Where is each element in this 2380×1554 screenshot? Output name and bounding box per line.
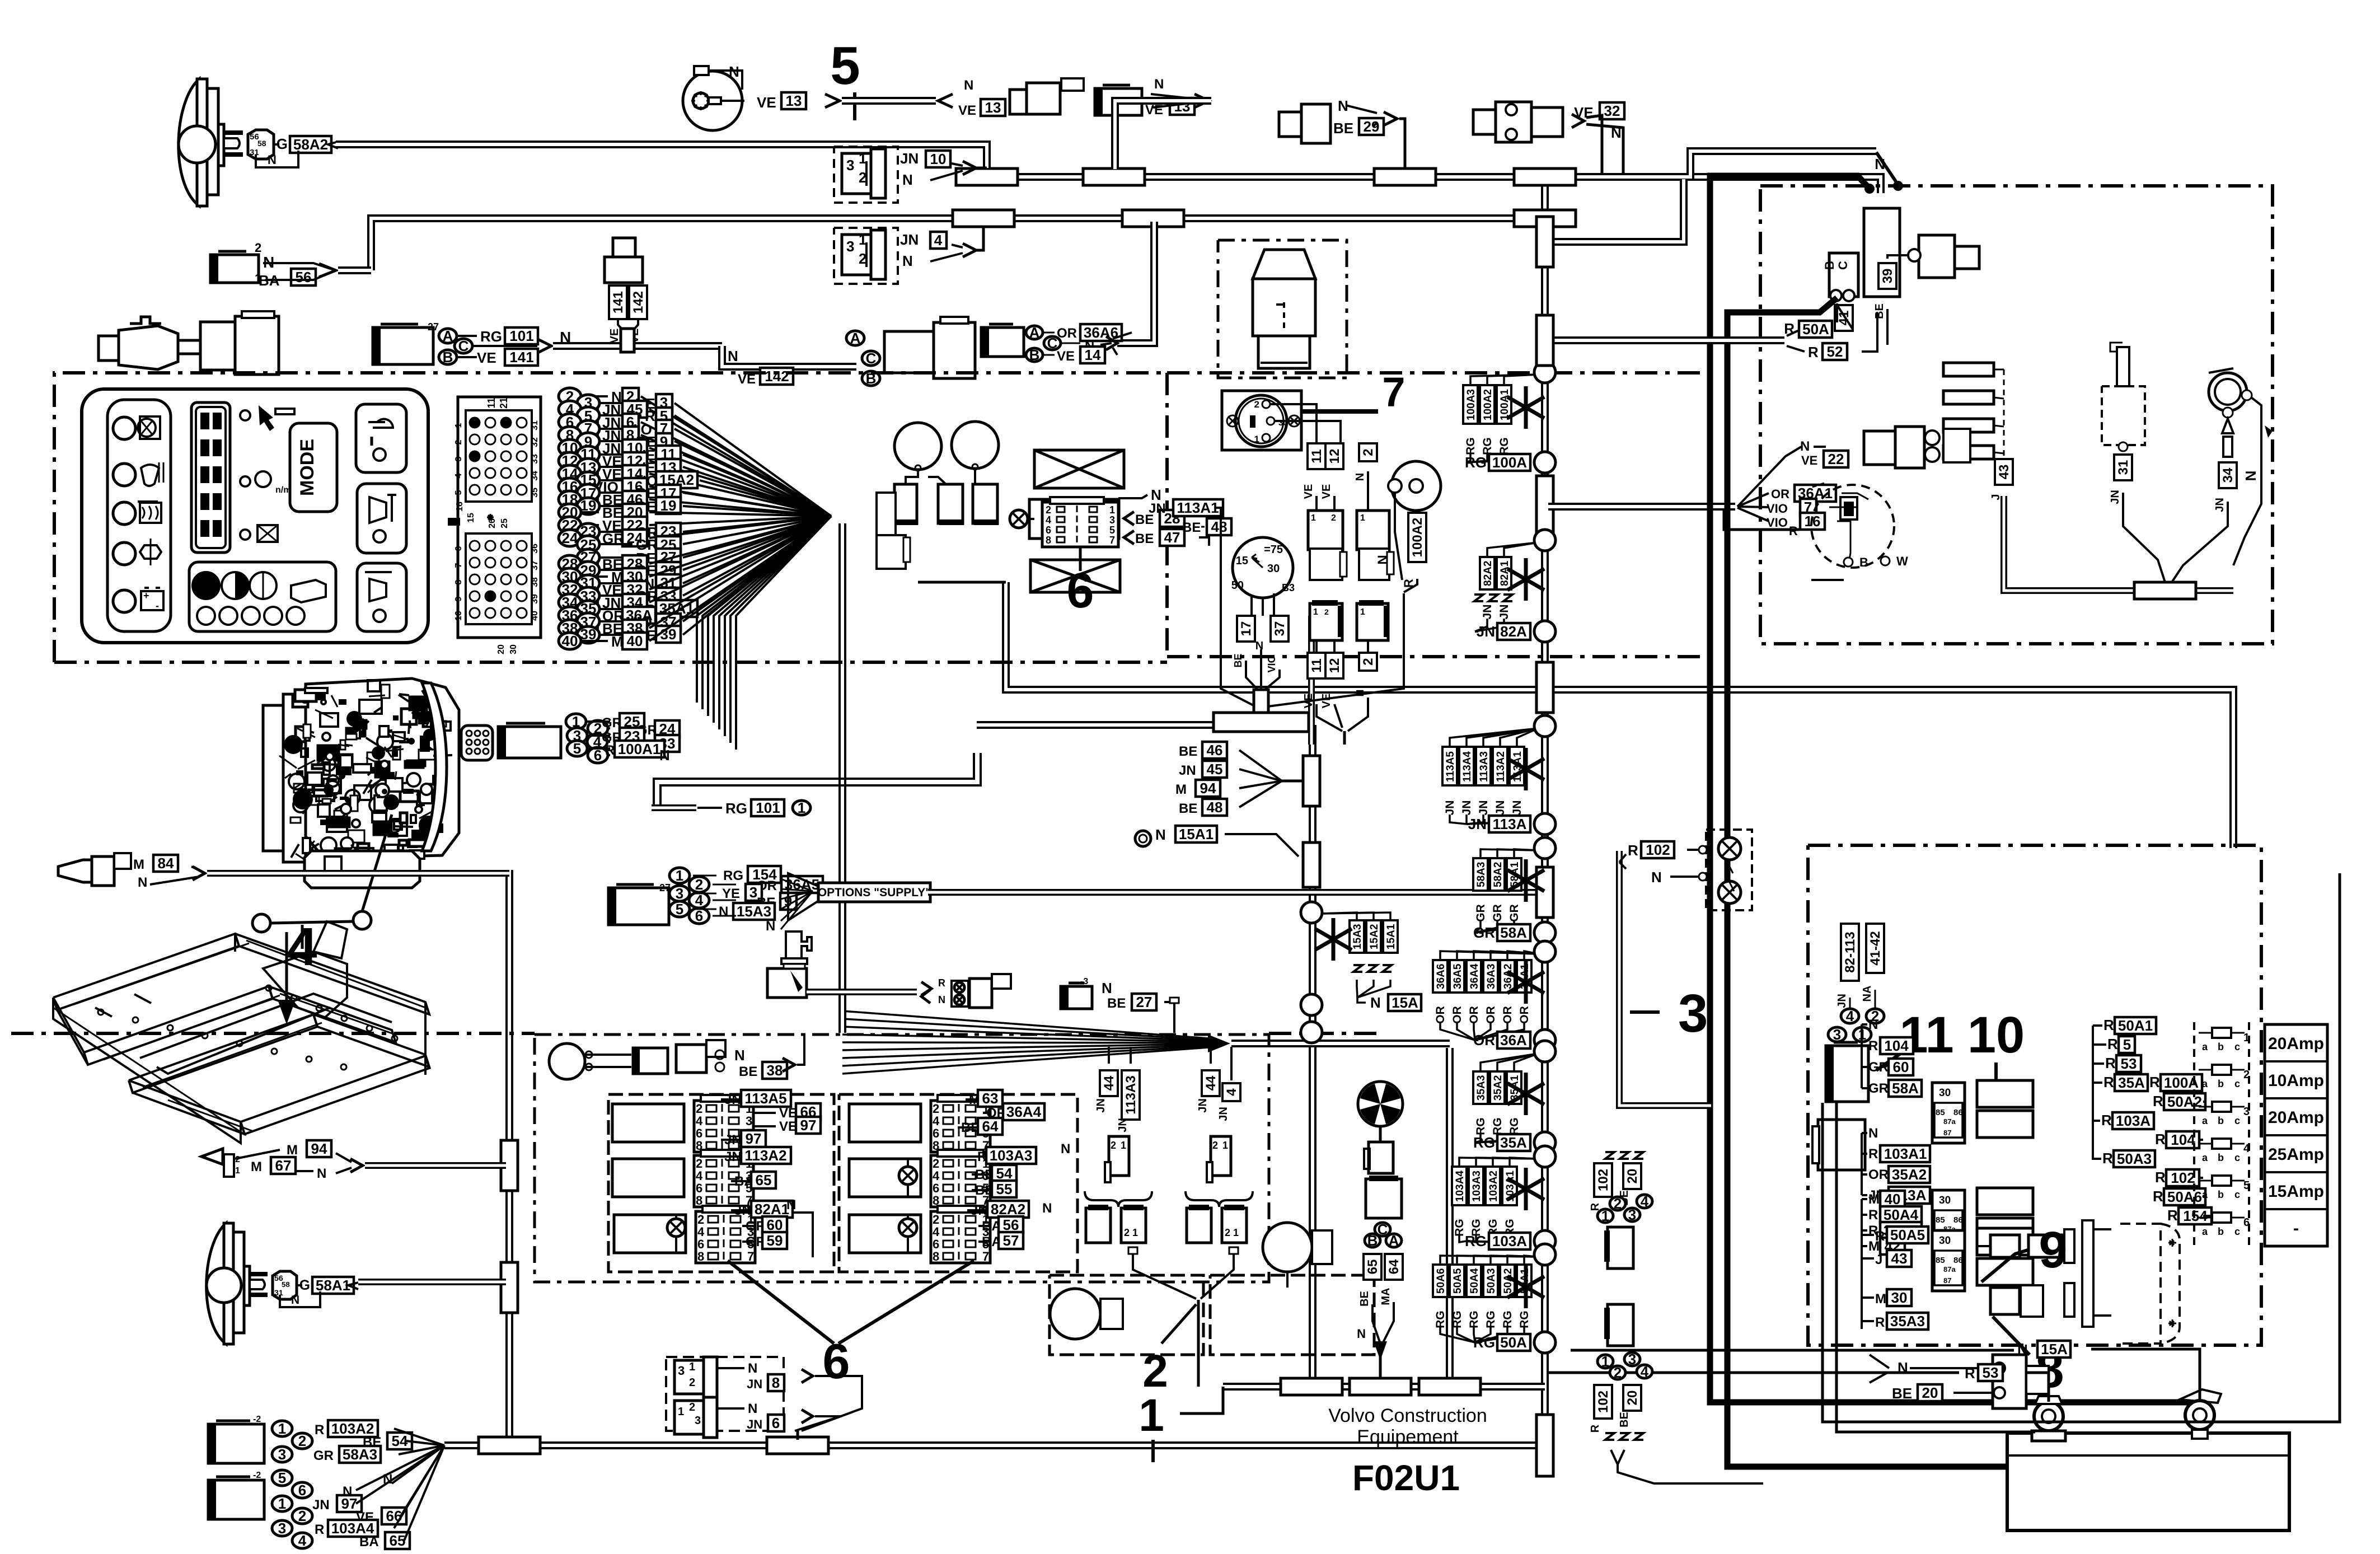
svg-text:35A: 35A: [1500, 1134, 1527, 1151]
svg-text:-3: -3: [1080, 977, 1088, 986]
svg-text:30: 30: [1939, 1087, 1951, 1099]
svg-text:W: W: [1896, 554, 1908, 568]
svg-text:C: C: [1047, 335, 1058, 352]
svg-text:N: N: [2017, 1341, 2028, 1358]
svg-text:3: 3: [678, 1364, 685, 1378]
svg-text:J: J: [1990, 494, 2002, 500]
svg-text:15: 15: [466, 513, 476, 523]
tag M41: [1835, 305, 1853, 331]
glow indicator: [2209, 373, 2247, 411]
connector body R102 upper: [1608, 1227, 1633, 1269]
svg-text:36A6: 36A6: [1435, 964, 1447, 989]
pin 31 wire JN 31: [577, 575, 599, 592]
svg-text:97: 97: [746, 1130, 762, 1147]
svg-text:8: 8: [1046, 535, 1051, 546]
svg-text:2: 2: [1046, 504, 1051, 516]
svg-text:4: 4: [1224, 1088, 1239, 1096]
connector BA56 sensor body: [210, 255, 259, 283]
connector pair B filled: [1310, 603, 1342, 640]
svg-text:30: 30: [509, 644, 518, 654]
svg-text:BE: BE: [1182, 520, 1201, 535]
svg-text:36A: 36A: [1500, 1032, 1527, 1049]
connector rounded grid: [461, 725, 493, 760]
svg-text:OPTIONS "SUPPLY": OPTIONS "SUPPLY": [818, 886, 931, 899]
wires JN plugs to H6: [802, 1376, 862, 1431]
clock icon: [240, 577, 250, 587]
mode icons column: [240, 410, 250, 420]
svg-text:87a: 87a: [1943, 1117, 1956, 1126]
svg-text:52: 52: [1827, 343, 1843, 360]
stack wire bottom: [1467, 815, 1500, 824]
stack tag: [1507, 1071, 1521, 1104]
fuse element: [2212, 1213, 2231, 1223]
svg-text:3: 3: [676, 885, 683, 902]
svg-text:-: -: [2293, 1219, 2299, 1238]
svg-text:2: 2: [454, 439, 463, 444]
svg-text:OR: OR: [1518, 1006, 1531, 1024]
sensor VE141 VE142 sender: [613, 238, 635, 257]
stack wire bottom: [1475, 920, 1514, 933]
connector RG101 module: [373, 327, 433, 364]
wire RG101 stub: [652, 804, 696, 811]
svg-text:a: a: [2202, 1189, 2208, 1200]
stack wire bottom: [1459, 1234, 1467, 1242]
svg-text:VE: VE: [1057, 349, 1075, 364]
pressure switch body: [767, 968, 807, 998]
svg-text:5: 5: [2123, 1036, 2131, 1053]
heavy cable 2 from alternator B: [1727, 298, 2049, 1467]
svg-text:1: 1: [1360, 607, 1365, 617]
svg-text:VE: VE: [757, 94, 776, 111]
svg-text:N: N: [786, 1197, 796, 1213]
svg-text:39: 39: [530, 594, 540, 604]
lamp plug octagon: [273, 1271, 297, 1299]
stack wire top: [1491, 1256, 1538, 1265]
svg-text:RG: RG: [1473, 1334, 1495, 1351]
svg-text:113A5: 113A5: [1445, 751, 1456, 782]
connector pair A: [1308, 511, 1343, 550]
connector key mark: [448, 518, 460, 526]
wire VE32 drops to H2: [1572, 114, 1584, 128]
lamp in line: [1010, 510, 1028, 528]
connector horn inline B: [1095, 88, 1142, 115]
svg-text:44: 44: [1102, 1075, 1117, 1090]
svg-text:113A: 113A: [1493, 816, 1527, 832]
svg-text:7: 7: [982, 1249, 989, 1263]
svg-text:1: 1: [1311, 513, 1316, 523]
stack wire bottom: [1467, 1234, 1510, 1242]
svg-text:5: 5: [2243, 1179, 2250, 1192]
wire 3 vertical: [1619, 851, 1711, 1106]
svg-text:35A3: 35A3: [1890, 1313, 1925, 1330]
fuel sender symbol: [1253, 250, 1315, 279]
svg-text:15A1: 15A1: [1179, 826, 1214, 842]
stack 15A on V2: [1321, 912, 1357, 920]
label 7 callout: [1301, 409, 1378, 414]
svg-text:3: 3: [1833, 1026, 1841, 1043]
svg-text:36: 36: [530, 544, 540, 554]
svg-text:GR: GR: [1473, 924, 1495, 941]
svg-text:GR: GR: [1508, 904, 1521, 922]
dash-dot box top-right engine bay: [1760, 186, 2273, 644]
svg-text:M: M: [1175, 782, 1187, 797]
svg-text:6: 6: [2243, 1216, 2250, 1229]
pin 34 wire JN 34: [559, 594, 581, 611]
svg-text:N: N: [1868, 1017, 1878, 1032]
svg-text:14: 14: [1085, 347, 1101, 363]
svg-text:31: 31: [530, 420, 540, 430]
stack wire bottom: [1474, 1326, 1475, 1342]
stack tag: [1433, 960, 1447, 993]
pin 32 wire VE 32: [559, 581, 581, 598]
wire trunk H6 bottom: [444, 1441, 1545, 1449]
svg-text:44: 44: [1203, 1075, 1219, 1090]
svg-text:101: 101: [756, 799, 780, 816]
svg-text:JN: JN: [747, 1417, 762, 1431]
pin 35 wire R 35A1: [577, 601, 599, 617]
engine fan side: [422, 683, 447, 851]
svg-text:R: R: [1868, 1207, 1878, 1223]
stack wire top: [1497, 849, 1538, 858]
svg-text:102: 102: [1596, 1391, 1611, 1413]
connector mini 6: [1042, 502, 1118, 547]
pin 2 wire N 2: [559, 388, 581, 405]
svg-text:6: 6: [823, 1333, 850, 1389]
tags VE11 VE12 N2 lower: [1308, 653, 1325, 678]
svg-text:1: 1: [1109, 504, 1115, 516]
relay connector block: [931, 1211, 990, 1263]
stack wire top: [1487, 375, 1538, 385]
page icon: [291, 580, 326, 602]
svg-text:17: 17: [1239, 621, 1254, 636]
stack bottom tag: [1475, 1141, 1478, 1144]
pin 40 wire M 40: [559, 633, 581, 649]
svg-text:JN: JN: [1494, 801, 1507, 816]
module 11 connector: [1826, 1046, 1868, 1102]
stack tag: [1473, 1071, 1488, 1104]
svg-text:1: 1: [1601, 1207, 1609, 1224]
svg-text:8: 8: [697, 1249, 704, 1263]
label G tag: [274, 143, 279, 146]
svg-text:N: N: [1354, 473, 1366, 481]
svg-text:13: 13: [786, 92, 802, 109]
svg-text:R: R: [315, 1522, 324, 1537]
relay group tags: [1861, 1199, 1863, 1246]
svg-text:A: A: [443, 327, 453, 344]
stack bottom tag: [1467, 461, 1470, 464]
label OPTIONS SUPPLY: [860, 889, 874, 896]
lamp lens crescent: [207, 1223, 226, 1344]
stack tag: [1517, 960, 1531, 993]
relay bodies: [1977, 1188, 2033, 1215]
relay mini block: [1932, 1230, 1965, 1291]
small circles row: [197, 607, 215, 625]
junction sleeve V5-58A1: [501, 1262, 518, 1313]
wires injector tags: [1108, 1047, 1110, 1064]
svg-text:60: 60: [1893, 1059, 1909, 1075]
plug 7 plate: [1222, 391, 1301, 450]
svg-text:43: 43: [1997, 465, 2012, 480]
starter relay 9 8: [1861, 1236, 1863, 1329]
indicator lamp 5: [113, 590, 135, 612]
svg-text:50A5: 50A5: [1890, 1227, 1925, 1243]
pin 8 wire JN 8: [559, 427, 581, 443]
svg-text:7: 7: [1382, 369, 1405, 415]
wire fan lines right: [1737, 447, 1801, 507]
rect mid: [1029, 499, 1119, 539]
svg-text:N: N: [1375, 555, 1390, 564]
svg-text:R: R: [2149, 1074, 2160, 1090]
svg-text:55: 55: [996, 1181, 1013, 1197]
svg-text:101: 101: [509, 327, 533, 344]
wire H2 right end to engine bay: [1548, 151, 1876, 177]
junction sleeve H4-V1: [1514, 210, 1576, 227]
lamp N stub: [256, 151, 298, 167]
svg-text:a: a: [2202, 1078, 2208, 1089]
svg-text:3: 3: [278, 1520, 286, 1537]
svg-text:RG: RG: [1453, 1219, 1466, 1237]
svg-text:3: 3: [1678, 984, 1708, 1043]
svg-text:b: b: [2218, 1226, 2224, 1237]
svg-text:6: 6: [298, 1482, 306, 1499]
svg-text:58A: 58A: [1500, 924, 1527, 941]
pin 10 wire JN 10: [559, 439, 581, 456]
wire bundle fan down: [697, 516, 831, 703]
svg-text:OR: OR: [1473, 1032, 1495, 1049]
svg-text:57: 57: [1003, 1232, 1019, 1249]
svg-text:56: 56: [1003, 1216, 1019, 1233]
svg-text:B: B: [1823, 261, 1836, 270]
svg-text:100A2: 100A2: [1410, 518, 1425, 558]
dashed outer relay box: [535, 1035, 1269, 1282]
svg-text:A: A: [1029, 324, 1040, 341]
svg-text:50A6: 50A6: [1435, 1269, 1447, 1294]
stack wire bottom: [1450, 815, 1467, 824]
svg-text:9: 9: [2039, 1221, 2067, 1279]
svg-text:JN: JN: [1149, 501, 1166, 516]
svg-text:54: 54: [996, 1165, 1013, 1182]
contact block 9: [1990, 1235, 2020, 1257]
svg-text:1: 1: [1313, 607, 1318, 617]
svg-text:2: 2: [255, 241, 261, 255]
svg-text:OR: OR: [1484, 1006, 1497, 1024]
svg-text:NA: NA: [1861, 986, 1873, 1002]
relay body: [849, 1215, 921, 1253]
stack wire top: [1440, 951, 1538, 960]
svg-text:VE: VE: [477, 349, 496, 366]
svg-text:87: 87: [1943, 1129, 1951, 1137]
svg-text:82A1: 82A1: [755, 1201, 789, 1218]
junction sleeve V1-OR36A1 fan: [1536, 476, 1553, 537]
stack tag: [1510, 747, 1524, 785]
svg-text:2: 2: [1361, 658, 1376, 665]
svg-text:JN: JN: [1460, 801, 1473, 816]
svg-text:34: 34: [2220, 467, 2236, 483]
svg-text:RG: RG: [723, 868, 743, 883]
wire trunk H8 long mid: [1006, 582, 2233, 848]
svg-text:1: 1: [676, 867, 683, 884]
svg-text:G: G: [299, 1278, 310, 1293]
svg-text:R: R: [1868, 1146, 1878, 1162]
stack tag: [1450, 960, 1464, 993]
lamp circle top left: [549, 1043, 585, 1079]
svg-text:100A3: 100A3: [1465, 389, 1477, 420]
stack wire top: [1483, 728, 1538, 747]
svg-text:104: 104: [1884, 1037, 1909, 1054]
MODE button: [290, 423, 337, 512]
buzzer speaker: [202, 1149, 231, 1176]
svg-text:MA: MA: [1380, 1288, 1392, 1305]
svg-text:65: 65: [1365, 1260, 1380, 1275]
wire JN10 to H2: [976, 167, 987, 170]
tags BE17 VIO37: [1237, 616, 1255, 642]
wire JN4 to H4: [976, 227, 983, 250]
stack wire bottom: [1475, 1133, 1497, 1143]
svg-text:102: 102: [1596, 1169, 1611, 1191]
svg-text:32: 32: [530, 437, 540, 447]
svg-text:VE: VE: [1801, 453, 1817, 467]
svg-text:YE: YE: [722, 886, 740, 901]
label 6 under mini: [1079, 547, 1082, 571]
relay bodies: [1977, 1228, 2033, 1255]
svg-text:4: 4: [1641, 1193, 1649, 1210]
options pins: [669, 868, 690, 883]
stack wire bottom: [1467, 453, 1470, 462]
svg-text:OR: OR: [1501, 1006, 1514, 1024]
svg-text:87a: 87a: [1943, 1265, 1956, 1274]
svg-text:B3: B3: [1282, 582, 1295, 593]
svg-text:15: 15: [1236, 555, 1248, 567]
pin 12 wire VE 12: [559, 452, 581, 469]
junction sleeve V5-speaker: [501, 1140, 518, 1191]
relay connector block: [931, 1155, 990, 1207]
svg-text:M: M: [1875, 1291, 1886, 1307]
svg-text:94: 94: [1200, 780, 1216, 797]
stack tag: [1473, 858, 1488, 891]
svg-text:2: 2: [1254, 399, 1259, 410]
stack wire top: [1497, 1054, 1538, 1071]
svg-text:102: 102: [1646, 841, 1670, 858]
glow module dashed: [2102, 386, 2145, 445]
callout 6 lines: [728, 1261, 834, 1344]
stack wire top: [1507, 1256, 1538, 1265]
svg-text:RG: RG: [725, 800, 747, 817]
key switch circle: [1233, 537, 1293, 598]
svg-text:82A2: 82A2: [991, 1201, 1025, 1218]
wire N branch: [2242, 390, 2252, 400]
svg-text:b: b: [2218, 1078, 2224, 1089]
stack wire top: [1491, 951, 1538, 960]
svg-text:OR: OR: [1771, 487, 1789, 501]
svg-text:N: N: [748, 1401, 757, 1416]
svg-text:20: 20: [496, 644, 506, 654]
wire RG101 cable to sender T: [538, 339, 551, 353]
wire horn output: [721, 100, 744, 102]
svg-text:VE: VE: [1320, 694, 1333, 709]
svg-text:53: 53: [2121, 1055, 2137, 1072]
svg-text:66: 66: [386, 1508, 402, 1524]
stack bottom tag: [1475, 1039, 1478, 1041]
pin 33 wire GR 33: [577, 587, 599, 604]
stack tag: [1450, 1265, 1464, 1297]
svg-text:R: R: [2105, 1055, 2116, 1071]
fuse element: [2212, 1139, 2231, 1149]
svg-text:GR: GR: [1491, 904, 1504, 922]
dashed box blower lower B: [1210, 1275, 1374, 1355]
svg-text:JN: JN: [747, 1377, 762, 1391]
pin 19 wire BE 19: [577, 498, 599, 514]
pin 3 wire VE 3: [577, 395, 599, 411]
svg-text:8: 8: [772, 1374, 780, 1391]
relay group tags: [1861, 1024, 1863, 1088]
tag JN31: [2114, 455, 2132, 480]
svg-text:36A5: 36A5: [1452, 963, 1464, 989]
svg-text:3: 3: [1628, 1206, 1636, 1223]
dashed box blower lower: [1050, 1275, 1203, 1355]
svg-text:4: 4: [2243, 1143, 2250, 1155]
svg-text:22: 22: [1828, 451, 1844, 467]
svg-text:82A: 82A: [1500, 623, 1527, 640]
svg-text:21: 21: [498, 397, 509, 409]
sensor temp probe: [99, 336, 119, 361]
blower resistor body: [1366, 1179, 1402, 1218]
svg-text:2: 2: [695, 876, 703, 893]
svg-text:c: c: [2234, 1078, 2240, 1089]
svg-text:4: 4: [454, 473, 463, 478]
svg-text:10Amp: 10Amp: [2268, 1071, 2324, 1090]
svg-text:J: J: [1875, 1252, 1882, 1267]
wire fan cable mid: [1231, 1040, 1450, 1047]
svg-text:12: 12: [1327, 658, 1342, 673]
svg-text:JN: JN: [971, 1203, 988, 1218]
svg-text:+: +: [143, 590, 149, 601]
dash-dot box instrument panel A: [54, 373, 1167, 662]
svg-text:40: 40: [627, 633, 643, 649]
stack wire top: [1450, 728, 1538, 747]
svg-text:2: 2: [1614, 1364, 1622, 1381]
svg-text:6: 6: [1046, 525, 1051, 536]
wire JN113A1 drop: [1216, 508, 1221, 513]
svg-text:R: R: [1875, 1315, 1885, 1330]
svg-text:2: 2: [1212, 1140, 1218, 1151]
svg-text:2: 2: [1111, 1140, 1116, 1151]
svg-text:R: R: [2153, 1188, 2163, 1205]
stack wire top: [1487, 542, 1538, 557]
svg-text:N: N: [138, 875, 147, 890]
label G tag: [297, 1284, 302, 1286]
stack wire bottom: [1467, 1234, 1493, 1242]
svg-text:58A2: 58A2: [1492, 862, 1504, 887]
lamp wire arrow: [328, 142, 338, 148]
svg-text:JN: JN: [1477, 801, 1490, 816]
svg-text:OR: OR: [1868, 1167, 1889, 1182]
svg-text:a: a: [2202, 1152, 2208, 1163]
svg-text:JN: JN: [1477, 623, 1495, 640]
wire BE27 drop: [1170, 998, 1179, 1003]
svg-text:36A4: 36A4: [1469, 963, 1481, 989]
svg-text:RG: RG: [1468, 1310, 1481, 1328]
svg-text:58: 58: [257, 139, 266, 148]
svg-text:RG: RG: [1473, 1134, 1495, 1151]
svg-text:M: M: [251, 1159, 262, 1174]
pin 17 wire BE 17: [577, 484, 599, 501]
svg-text:142: 142: [765, 368, 789, 385]
wire bundle risers center: [838, 523, 846, 1033]
junction sleeve H5-V3: [1419, 1378, 1481, 1395]
svg-text:N: N: [268, 153, 277, 167]
svg-text:c: c: [2234, 1115, 2240, 1126]
label VE 141: [457, 356, 477, 358]
